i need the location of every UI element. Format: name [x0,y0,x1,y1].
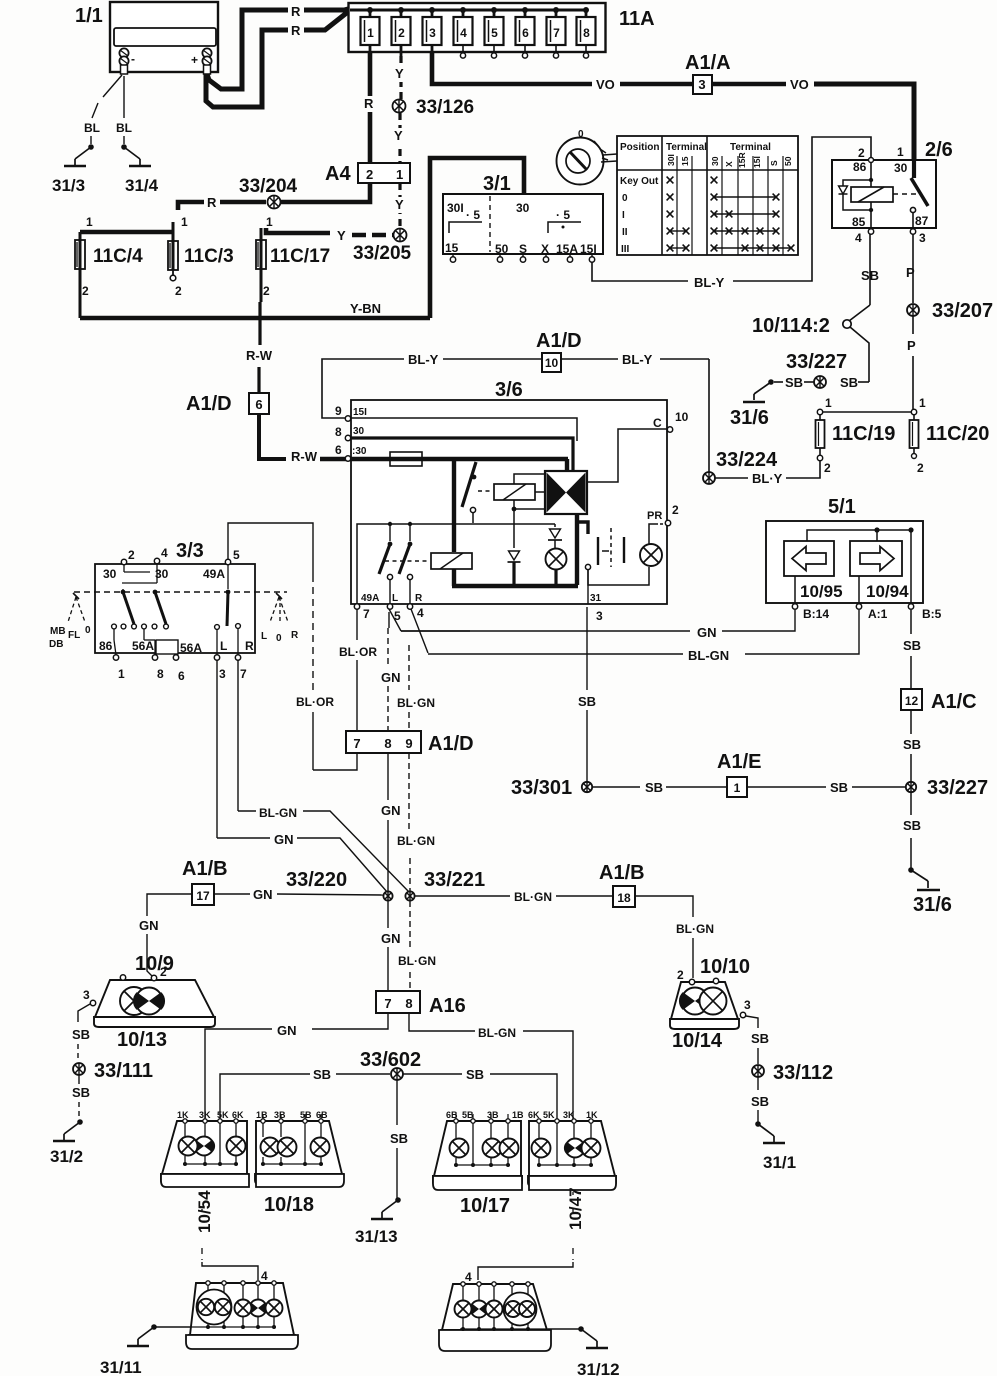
svg-text:7: 7 [240,667,247,681]
wire R from 11C/3 to 33/204 [178,202,204,210]
wire SB from 5/1 B:5 down [910,610,912,634]
battery 1/1 [110,2,218,72]
svg-text:10/17: 10/17 [460,1195,510,1217]
relay diode [843,180,871,186]
fuse 2 in 11A [398,7,404,13]
svg-text:2: 2 [160,965,167,979]
svg-text:6: 6 [522,26,529,40]
wire SB from A1/C down [910,710,912,734]
svg-text:1: 1 [734,781,741,795]
dashed continuation below 10/47 [572,1192,574,1212]
wire SB from 33/227 down to ground [910,792,912,815]
svg-text:SB: SB [840,375,858,390]
svg-text:· 5: · 5 [466,208,480,222]
10/9 terminal 2 [151,975,156,980]
3/6 bottom terminals 49A L R [354,604,359,609]
svg-text:SB: SB [313,1067,331,1082]
svg-text:33/602: 33/602 [360,1049,421,1071]
svg-text:BL·GN: BL·GN [398,954,436,968]
svg-text::30: :30 [352,446,367,457]
fuse 5 in 11A [491,7,497,13]
svg-text:11C/19: 11C/19 [832,423,895,445]
svg-text:BL-GN: BL-GN [478,1026,516,1040]
svg-text:30: 30 [894,161,908,175]
3/6 link from coil bottom to flasher left [514,508,545,510]
link from key to table [603,154,617,155]
3/1 terminals [452,254,454,257]
svg-text:BL-Y: BL-Y [694,275,725,290]
wire GN from A1/B-17 to 33/220 [214,893,250,895]
svg-text:Y: Y [337,228,346,243]
svg-text:17: 17 [196,889,210,903]
svg-text:11C/4: 11C/4 [93,246,143,267]
svg-text:2: 2 [366,167,373,182]
wire Y from fuse 2 (dashed) to 33/126 [399,56,402,99]
svg-text:Terminal: Terminal [730,142,771,153]
svg-text:15: 15 [445,241,459,255]
3/6 diode 1 [509,551,520,560]
svg-text:11C/20: 11C/20 [926,423,989,445]
svg-text:10/95: 10/95 [800,582,843,601]
svg-text:2: 2 [128,548,135,562]
svg-text:10/94: 10/94 [866,582,909,601]
svg-text:49A: 49A [203,567,225,581]
10/47 terminals [537,1119,541,1123]
wire P from relay 3 to 33/207 [912,234,914,303]
svg-text:R-W: R-W [246,348,273,363]
connector strip A1/D 7 8 9 [346,731,421,753]
wire VO from A1/A to relay 2/6 [712,82,786,87]
svg-text:A1/B: A1/B [599,862,645,884]
svg-text:X: X [724,161,734,167]
svg-text:3: 3 [219,667,226,681]
wire BL-Y from 3/1 terminal 15I to relay (via table side) [592,262,688,281]
svg-text:4: 4 [460,26,467,40]
wire SB horizontal from 33/301 to 33/227 [582,782,592,792]
svg-text:Terminal: Terminal [666,142,707,153]
svg-text:50: 50 [495,242,509,256]
svg-text:33/207: 33/207 [932,300,993,322]
svg-text:31/13: 31/13 [355,1227,398,1246]
svg-text:BL·GN: BL·GN [397,696,435,710]
svg-text:BL-GN: BL-GN [259,806,297,820]
svg-text:3: 3 [698,77,705,92]
wire BL-Y riser from A1/D-10 line down to 33/224 [708,359,710,472]
battery positive terminal [202,48,211,57]
svg-text:3/3: 3/3 [176,540,204,562]
dashed continuation below 10/54 [201,1192,203,1212]
svg-text:A16: A16 [429,995,466,1017]
wire to bottom right cluster terminal 4 [478,1262,573,1280]
connector 33/227 upper [814,376,826,388]
relay coil to terminal 85/4 [870,202,872,230]
3/6 lower chain to diode 2 [554,524,556,527]
3/3 arm 1 [121,590,126,595]
svg-text:BL·OR: BL·OR [339,645,377,659]
svg-text:GN: GN [253,887,273,902]
3/6 terminal 4 diagonal [411,609,428,653]
wire R-W from A1/D-6 to 3/6 terminal 6 [259,414,286,459]
3/6 upper arm contact [470,507,475,512]
fuse 11C/4 [79,240,82,269]
svg-text:33/205: 33/205 [353,243,412,264]
svg-text:2: 2 [398,26,405,40]
wire linking 11C/19 and 11C/20 tops [823,411,911,413]
junction 33/220 [383,891,392,900]
3/6 pilot lamp 2 wiring [588,567,649,585]
svg-text:10/114:2: 10/114:2 [752,315,830,337]
svg-text:2: 2 [858,146,865,160]
svg-text:2: 2 [175,284,182,298]
svg-text:3: 3 [83,988,90,1002]
svg-text:10/18: 10/18 [264,1194,314,1216]
svg-text:B:14: B:14 [803,607,829,621]
svg-text:SB: SB [903,737,921,752]
svg-text:1: 1 [396,167,403,182]
svg-text:Y: Y [395,66,404,81]
3/6 coil right link to flasher [535,491,545,493]
svg-text:10: 10 [545,356,559,370]
10/54 internal wires [184,1123,186,1136]
bottom left lamp cluster [190,1283,294,1335]
10/47 bulb 1 [532,1139,551,1158]
svg-text:-: - [131,52,135,66]
svg-text:VO: VO [790,77,809,92]
svg-text:BL-GN: BL-GN [688,648,729,663]
svg-text:GN: GN [277,1023,297,1038]
svg-text:11A: 11A [619,8,655,30]
svg-text:R: R [415,593,423,604]
3/6 terminal 9 (15I) [345,416,350,421]
10/10 bulb (black sectors) [682,988,709,1015]
10/18 terminals [261,1119,265,1123]
svg-text:Key Out: Key Out [620,176,659,187]
fuse 1 in 11A [367,7,373,13]
svg-text:1: 1 [86,215,93,229]
svg-text:GN: GN [697,625,717,640]
svg-text:P: P [906,265,915,280]
svg-text:BL·GN: BL·GN [514,890,552,904]
3/6 thick bottom bus [452,584,578,588]
svg-text:85: 85 [852,215,866,229]
wire VO from fuse 3 to the right [432,52,592,84]
svg-text:BL-Y: BL-Y [622,352,653,367]
svg-text:R: R [291,630,299,641]
svg-text:VO: VO [596,77,615,92]
5/1 terminal B:14 [794,576,796,603]
svg-text:1K: 1K [177,1110,189,1120]
wire battery negative to ground 31/4 (BL) [123,76,125,118]
wire R-W from 11C/17 pin2 down (crosses Y-BN) [260,268,263,302]
svg-text:1/1: 1/1 [75,5,103,27]
terminal position table [617,136,798,255]
svg-text:L: L [392,593,398,604]
wire 11C/17 pin1 stub [260,228,263,240]
relay coil feed from terminal 2 [869,158,874,163]
3/6 wire flasher to terminal C [588,429,667,482]
open terminal below 11C/3 [172,270,174,275]
svg-text:1: 1 [118,667,125,681]
svg-text:3: 3 [744,998,751,1012]
svg-text:0: 0 [578,129,584,140]
svg-text:+: + [191,53,198,67]
svg-text:3: 3 [429,26,436,40]
3/6 pilot lamp 2 [640,544,662,566]
svg-text:L: L [261,631,267,642]
3/6 left thick riser [452,461,456,552]
fuse 11C/19 [817,409,822,414]
svg-text:2: 2 [672,503,679,517]
wire bottom right cluster to ground 31/12 [548,1328,581,1330]
10/47 bulb 2 black [566,1139,585,1158]
connector 33/602 [391,1068,403,1080]
svg-text:Y: Y [395,197,404,212]
bottom right cluster internal wires [462,1286,464,1329]
connector 10/114:2 [843,320,851,328]
rear lamp cluster 10/17 [434,1121,521,1176]
bottom right lamp cluster [442,1284,547,1330]
svg-text:1: 1 [367,26,374,40]
svg-text:4: 4 [161,546,168,560]
svg-text:B:5: B:5 [922,607,942,621]
svg-text:8: 8 [583,26,590,40]
bus bar in 11A [350,9,586,12]
svg-text:33/204: 33/204 [239,176,298,197]
svg-text:15I: 15I [580,242,597,256]
svg-text:11C/3: 11C/3 [184,246,234,267]
svg-text:0: 0 [622,193,628,204]
svg-text:SB: SB [390,1131,408,1146]
svg-text:9: 9 [335,404,342,418]
svg-text:15A: 15A [556,242,578,256]
wire SB from 33/112 down [757,1077,759,1090]
svg-text:A1/E: A1/E [717,751,761,773]
wire Y from A4 pin 1 down to 33/205 (dashed) [398,183,401,228]
bottom left cluster bulbs [250,1300,267,1317]
fuse 11C/17 [260,240,263,269]
connector 33/126 [393,100,406,113]
svg-text:GN: GN [381,803,401,818]
svg-text:L: L [220,639,227,653]
svg-text:4: 4 [465,1270,472,1284]
svg-text:X: X [541,242,549,256]
10/10 terminal 3 [740,1012,745,1017]
3/6 lower switch line 49A [357,524,555,604]
10/9 open terminal [120,975,125,980]
wire SB left segment to ground [804,381,814,383]
svg-text:BL·GN: BL·GN [397,834,435,848]
wire GN from A1/D pin 8 down to 33/220 [387,753,389,800]
svg-text:10: 10 [675,410,689,424]
svg-text:5K: 5K [543,1110,555,1120]
svg-text:II: II [622,227,628,238]
wire VO to connector A1/A [620,82,692,87]
3/6 lower arm R [408,522,412,526]
wire SB bus lower [220,1074,310,1120]
3/6 terminal C/10 [667,427,672,432]
svg-text:15: 15 [680,156,690,166]
svg-text:Y-BN: Y-BN [350,301,381,316]
svg-text:GN: GN [381,931,401,946]
ground 31/1 [755,1121,761,1127]
relay dashed link coil-switch [893,193,918,195]
connector strip A16 [376,991,420,1013]
svg-text:33/227: 33/227 [927,777,988,799]
3/3 dashed selector line [74,591,287,593]
5/1 terminal A:1 [858,576,860,603]
10/54 bulb 2 black [195,1137,214,1156]
wire R from A4 pin 2 down-left to 33/204 line [345,183,370,202]
svg-text:7: 7 [353,736,360,751]
3/6 lower arm L [388,522,392,526]
svg-text:· 5: · 5 [556,208,570,222]
svg-text:BL-Y: BL-Y [408,352,439,367]
svg-text:6K: 6K [232,1110,244,1120]
bottom right cluster terminals [461,1282,465,1286]
3/6 terminal 5 diagonal [389,609,401,631]
5/1 right lamp box 10/94 with right arrow [850,541,902,576]
3/6 pilot lamp 1 [546,549,567,570]
svg-text:2: 2 [263,284,270,298]
wire battery negative to ground 31/3 (BL) [103,75,122,97]
svg-text:BL·Y: BL·Y [752,471,783,486]
svg-text:SB: SB [72,1085,90,1100]
svg-text:6: 6 [255,397,262,412]
svg-text:30: 30 [353,426,365,437]
svg-text:31/2: 31/2 [50,1147,83,1166]
svg-text:R: R [291,4,301,19]
3/6 lower dashed link to coil [385,560,429,562]
svg-text:DB: DB [49,639,63,650]
rear lamp cluster 10/18 [256,1121,342,1174]
connector 33/204 [268,196,281,209]
svg-text:31/4: 31/4 [125,176,159,195]
svg-text:1: 1 [825,396,832,410]
svg-text:18: 18 [617,891,631,905]
svg-text:3: 3 [596,609,603,623]
svg-text:BL·GN: BL·GN [676,922,714,936]
svg-text:31/11: 31/11 [100,1358,142,1376]
svg-text:33/221: 33/221 [424,869,485,891]
svg-text:BL: BL [84,121,100,135]
svg-text:PR: PR [647,510,662,522]
10/47 internal wires [538,1123,540,1138]
connector 33/205 [394,229,407,242]
svg-text:2/6: 2/6 [925,139,953,161]
svg-text:BL: BL [116,121,132,135]
svg-text:30: 30 [516,201,530,215]
svg-text:C: C [653,416,662,430]
ground 31/13 [395,1197,401,1203]
svg-text:10/10: 10/10 [700,956,750,978]
bottom left cluster internal wires [207,1285,209,1327]
wire Y from 33/126 to A4 pin 1 (dashed) [398,113,401,163]
svg-text:S: S [519,242,527,256]
svg-text:33/111: 33/111 [94,1060,153,1082]
3/6 internal :30 thick wire with fuse [351,457,568,461]
3/3 terminal 2 [121,559,126,564]
3/6 terminal PR/2 [665,520,670,525]
10/54 bulb 1 [179,1137,198,1156]
table column lines [661,136,663,255]
svg-text:10/9: 10/9 [135,953,174,975]
wire to bottom left cluster terminal 4 [202,1262,258,1280]
svg-text:SB: SB [645,780,663,795]
ground 31/4 [121,144,127,150]
svg-text:FL: FL [68,630,80,641]
10/10 terminal 2 [689,979,694,984]
svg-text:33/227: 33/227 [786,351,847,373]
wire bottom left cluster to ground 31/11 [154,1326,190,1328]
svg-text:5: 5 [491,26,498,40]
wire BL-Y from 3/6 terminal 9 up and right to A1/D-10 [322,359,404,418]
wire SB from relay 4 to connector 10/114:2 [869,234,871,305]
wire BL-Y from A1/D-10 right [561,358,618,360]
svg-text:SB: SB [785,375,803,390]
3/6 coil bottom to diode chain [513,500,515,548]
3/3 bottom terminals [113,655,118,660]
svg-text:1: 1 [181,215,188,229]
svg-text:9: 9 [405,736,412,751]
ground 31/11 [151,1324,157,1330]
3/6 lower relay coil [431,553,472,569]
fuse 8 in 11A [583,7,589,13]
svg-text:12: 12 [905,694,919,708]
wire battery positive to fuse box (lower R) [206,30,288,107]
wire from 11C/4 pin1 to 11C/3 pin1 [80,230,173,235]
svg-text:10/13: 10/13 [117,1029,167,1051]
svg-text:4: 4 [261,1269,268,1283]
rear lamp cluster 10/47 [529,1121,615,1176]
bottom left cluster terminals [206,1281,210,1285]
svg-text:10/47: 10/47 [566,1187,585,1230]
relay coil [851,187,893,202]
svg-text:SB: SB [903,818,921,833]
svg-text:SB: SB [903,638,921,653]
svg-text:R: R [207,195,217,210]
wire SB from 33/602 down to ground 31/13 [396,1080,398,1125]
wire BL-GN dashed from 3/6 terminal 4 down to A1/D pin 9 [408,645,410,690]
svg-text:GN: GN [139,918,159,933]
svg-text:8: 8 [335,425,342,439]
svg-text:56A: 56A [180,641,202,655]
svg-text:2: 2 [82,284,89,298]
fuse 4 in 11A [460,7,466,13]
3/3 terminal 5 [225,559,230,564]
3/6 coil top link to flasher [514,474,545,484]
svg-text:30: 30 [103,567,117,581]
svg-text:SB: SB [466,1067,484,1082]
svg-text:30: 30 [710,156,720,166]
10/9 bulb (black sectors) [136,988,163,1015]
svg-text:33/112: 33/112 [773,1062,833,1084]
10/18 internal wires [262,1123,264,1137]
svg-text:7: 7 [553,26,560,40]
ground 31/6 lower [908,867,914,873]
svg-text:P: P [907,338,916,353]
svg-text:10/54: 10/54 [195,1190,214,1233]
wire BL-OR from A1/D pin 7 to 3/3 terminal 5 [313,753,357,770]
svg-text:31/12: 31/12 [577,1360,620,1376]
svg-text:3/1: 3/1 [483,173,511,195]
svg-text:3B: 3B [487,1110,499,1120]
svg-text:10/14: 10/14 [672,1030,723,1052]
3/3 selector arrow right (L 0 R) [270,597,279,622]
svg-text:6: 6 [178,669,185,683]
wire SB from 33/111 down [78,1075,80,1084]
table header underline [617,169,798,171]
svg-text:A1/C: A1/C [931,691,977,713]
